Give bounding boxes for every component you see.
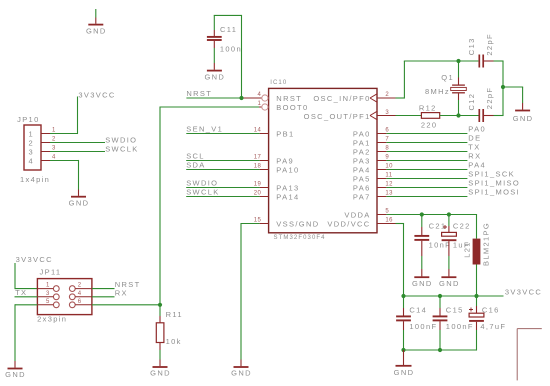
pin bubble NRST pin 4 xyxy=(262,95,268,101)
svg-text:5: 5 xyxy=(46,299,50,305)
svg-text:SCL: SCL xyxy=(186,152,205,161)
junction oscillator ground node xyxy=(501,85,505,89)
svg-text:NRST: NRST xyxy=(276,94,302,103)
pin pad 3 JP11 xyxy=(53,294,59,300)
svg-text:STM32F030F4: STM32F030F4 xyxy=(274,235,326,241)
junction 3V3 rail C16 xyxy=(474,294,478,298)
svg-text:1: 1 xyxy=(46,283,50,289)
svg-text:SEN_V1: SEN_V1 xyxy=(186,125,223,134)
junction NRST node xyxy=(239,96,243,100)
capacitor C12 22pF xyxy=(467,87,494,122)
wire OSC_OUT to R12 xyxy=(396,115,422,117)
inductor L21 BLM21PG xyxy=(463,222,491,296)
svg-text:1: 1 xyxy=(258,101,262,107)
pin pad 6 JP11 xyxy=(69,302,75,308)
svg-text:PA13: PA13 xyxy=(276,183,299,192)
ground below C22 xyxy=(439,256,460,288)
wire JP10 pin3 to SWCLK xyxy=(50,151,105,153)
svg-text:OSC_IN/PF0: OSC_IN/PF0 xyxy=(313,94,370,103)
capacitor C15 100nF xyxy=(433,296,474,331)
frame corner bottom-right xyxy=(517,329,542,381)
supply 3V3VCC (JP10) xyxy=(50,91,116,134)
svg-text:PA9: PA9 xyxy=(276,156,294,165)
pin arrow OSC_IN pin 2 xyxy=(370,94,378,103)
svg-text:22pF: 22pF xyxy=(485,33,494,56)
svg-text:4: 4 xyxy=(78,291,82,297)
svg-text:GND: GND xyxy=(513,114,534,123)
svg-text:PA0: PA0 xyxy=(353,129,371,138)
net label PA0 xyxy=(386,125,486,134)
pin pad 4 JP11 xyxy=(69,294,75,300)
svg-text:7: 7 xyxy=(385,137,389,143)
svg-text:C16: C16 xyxy=(482,305,500,314)
svg-text:100n: 100n xyxy=(220,44,242,53)
svg-text:220: 220 xyxy=(421,121,438,130)
svg-text:20: 20 xyxy=(254,191,262,197)
svg-text:PA2: PA2 xyxy=(353,147,371,156)
svg-text:10nF: 10nF xyxy=(429,240,452,249)
svg-text:14: 14 xyxy=(254,128,262,134)
svg-text:PA3: PA3 xyxy=(353,156,371,165)
svg-text:3: 3 xyxy=(46,291,50,297)
wire C13/C12 right column xyxy=(494,61,504,116)
ground below C14 xyxy=(394,350,415,377)
capacitor C16 4,7uF polarized xyxy=(469,296,506,331)
svg-text:4: 4 xyxy=(29,156,35,165)
svg-text:3V3VCC: 3V3VCC xyxy=(16,255,53,264)
wire to oscillator ground xyxy=(503,87,523,103)
net label RX (IC side) xyxy=(386,152,481,161)
svg-text:PA7: PA7 xyxy=(353,192,371,201)
wire C11 top to NRST net xyxy=(214,15,242,98)
svg-text:JP11: JP11 xyxy=(40,268,62,277)
wire VDDA rail xyxy=(386,215,477,239)
wire JP11 pin5 to ground xyxy=(15,304,37,361)
net label SCL xyxy=(186,152,259,161)
svg-text:C12: C12 xyxy=(467,93,476,111)
svg-text:SPI1_SCK: SPI1_SCK xyxy=(468,170,515,179)
svg-text:13: 13 xyxy=(385,191,393,197)
connector JP11 xyxy=(37,268,92,324)
svg-text:PB1: PB1 xyxy=(276,129,294,138)
svg-text:RX: RX xyxy=(468,152,481,161)
svg-text:GND: GND xyxy=(5,370,26,379)
net label SPI1_MISO xyxy=(386,179,520,188)
svg-text:GND: GND xyxy=(394,368,415,377)
pin pad 2 JP11 xyxy=(69,286,75,292)
wire crystal bottom node to C12 xyxy=(459,115,479,117)
net label SPI1_SCK xyxy=(386,170,515,179)
capacitor C21 10nF xyxy=(414,215,451,257)
wire NRST to IC pin 4 xyxy=(242,97,262,99)
svg-text:PA4: PA4 xyxy=(468,161,486,170)
wire VDD to 3V3 rail xyxy=(396,224,405,297)
svg-text:BOOT0: BOOT0 xyxy=(276,103,308,112)
net label SWCLK (IC side) xyxy=(186,188,259,197)
svg-text:GND: GND xyxy=(150,369,171,378)
svg-text:C13: C13 xyxy=(467,37,476,55)
svg-text:PA1: PA1 xyxy=(353,138,371,147)
svg-text:PA10: PA10 xyxy=(276,165,299,174)
svg-text:4: 4 xyxy=(52,155,56,161)
capacitor C22 1uF polarized xyxy=(442,215,471,257)
supply rail 3V3VCC right xyxy=(403,288,542,297)
svg-text:PA14: PA14 xyxy=(276,192,299,201)
net label NRST xyxy=(186,89,241,98)
svg-text:22pF: 22pF xyxy=(485,87,494,110)
svg-text:SPI1_MOSI: SPI1_MOSI xyxy=(468,188,520,197)
wire bottom decoupling rail xyxy=(403,330,477,351)
wire VSS to ground xyxy=(241,223,260,360)
svg-text:2x3pin: 2x3pin xyxy=(37,314,67,323)
svg-text:VDDA: VDDA xyxy=(344,210,370,219)
svg-text:6: 6 xyxy=(385,128,389,134)
net label SEN_V1 xyxy=(186,125,259,134)
net label RX (JP11 side) xyxy=(92,288,128,297)
svg-text:100nF: 100nF xyxy=(409,322,437,331)
svg-text:19: 19 xyxy=(254,182,262,188)
net label TX (IC side) xyxy=(386,143,480,152)
ground top-left xyxy=(86,9,107,35)
svg-text:JP10: JP10 xyxy=(17,115,39,124)
svg-text:TX: TX xyxy=(468,143,480,152)
ground below VSS xyxy=(231,360,252,378)
svg-text:OSC_OUT/PF1: OSC_OUT/PF1 xyxy=(304,112,371,121)
pin pad 1 JP11 xyxy=(53,286,59,292)
crystal Q1 8MHz xyxy=(425,61,466,116)
svg-text:10: 10 xyxy=(385,164,393,170)
pin bubble BOOT0 pin 1 xyxy=(262,104,268,110)
connector JP10 xyxy=(17,115,50,184)
supply 3V3VCC (JP11) xyxy=(15,255,53,289)
svg-text:PA5: PA5 xyxy=(353,174,371,183)
pin stubs right side IC10 xyxy=(377,98,396,224)
svg-text:C21: C21 xyxy=(429,222,447,231)
wire BOOT0 to JP11/R11 column xyxy=(160,106,262,316)
svg-text:5: 5 xyxy=(385,209,389,215)
wire JP10 pin4 to ground xyxy=(50,160,79,190)
capacitor C14 100nF xyxy=(396,296,437,331)
svg-text:1: 1 xyxy=(29,129,35,138)
junction bottom rail C15 xyxy=(438,348,442,352)
svg-text:4,7uF: 4,7uF xyxy=(480,322,506,331)
svg-text:6: 6 xyxy=(78,299,82,305)
svg-text:NRST: NRST xyxy=(186,89,212,98)
wire OSC_IN to crystal top rail xyxy=(396,61,479,99)
svg-text:17: 17 xyxy=(254,155,262,161)
svg-text:GND: GND xyxy=(86,26,107,35)
junction bottom rail C14 xyxy=(401,348,405,352)
ground right of crystal xyxy=(513,103,534,123)
svg-text:3: 3 xyxy=(29,147,35,156)
svg-text:Q1: Q1 xyxy=(441,73,454,82)
svg-text:4: 4 xyxy=(258,92,262,98)
svg-text:100nF: 100nF xyxy=(446,322,474,331)
svg-text:BLM21PG: BLM21PG xyxy=(482,222,491,266)
junction C22 top xyxy=(447,212,451,216)
svg-text:SPI1_MISO: SPI1_MISO xyxy=(468,179,520,188)
wire JP11 pin6 to R11 node xyxy=(92,304,160,306)
net label DE xyxy=(386,134,481,143)
wire JP10 pin2 to SWDIO xyxy=(50,142,105,144)
junction 3V3 rail C14 xyxy=(401,294,405,298)
svg-text:PA4: PA4 xyxy=(353,165,371,174)
capacitor C11 xyxy=(207,25,242,53)
junction C21 top xyxy=(420,212,424,216)
ground below C21 xyxy=(412,256,433,288)
net label NRST (JP11 side) xyxy=(92,280,141,289)
svg-text:GND: GND xyxy=(69,198,90,207)
svg-text:VDD/VCC: VDD/VCC xyxy=(327,219,370,228)
net label SPI1_MOSI xyxy=(386,188,520,197)
svg-text:SDA: SDA xyxy=(186,161,205,170)
pin names right side of IC10 xyxy=(304,94,371,229)
svg-text:1x4pin: 1x4pin xyxy=(20,175,50,184)
svg-text:R12: R12 xyxy=(419,104,437,113)
svg-text:15: 15 xyxy=(254,218,262,224)
pin stubs JP10 xyxy=(41,134,50,161)
svg-text:SWCLK: SWCLK xyxy=(105,144,138,153)
svg-text:L21: L21 xyxy=(463,241,472,258)
ground below C11 xyxy=(204,48,225,81)
net label SWDIO (IC side) xyxy=(186,179,259,188)
pin numbers left side of IC10 xyxy=(254,92,262,224)
svg-text:SWDIO: SWDIO xyxy=(186,179,218,188)
net label SDA xyxy=(186,161,259,170)
junction R11 node xyxy=(158,303,162,307)
pin stubs left side IC10 xyxy=(260,134,269,224)
svg-text:2: 2 xyxy=(385,92,389,98)
svg-text:TX: TX xyxy=(15,288,27,297)
junction 3V3 rail C15 xyxy=(438,294,442,298)
svg-text:10k: 10k xyxy=(166,337,182,346)
junction crystal bottom node xyxy=(456,113,460,117)
svg-text:2: 2 xyxy=(78,283,82,289)
pin stubs JP11 xyxy=(37,289,92,305)
ground below R11 xyxy=(150,360,171,378)
junction crystal top node xyxy=(456,59,460,63)
pin pad 5 JP11 xyxy=(53,302,59,308)
svg-text:PA6: PA6 xyxy=(353,183,371,192)
resistor R11 10k xyxy=(156,310,183,350)
net label TX (JP11 side) xyxy=(15,288,38,297)
ground below JP11 xyxy=(5,361,26,379)
svg-text:PA0: PA0 xyxy=(468,125,486,134)
svg-text:1: 1 xyxy=(52,128,56,134)
svg-text:11: 11 xyxy=(385,173,392,179)
svg-text:GND: GND xyxy=(439,279,460,288)
svg-text:3V3VCC: 3V3VCC xyxy=(505,288,542,297)
svg-text:3: 3 xyxy=(52,146,56,152)
svg-text:GND: GND xyxy=(204,72,225,81)
wire R11 to ground xyxy=(159,350,161,360)
svg-text:IC10: IC10 xyxy=(270,80,287,86)
capacitor C13 22pF xyxy=(467,33,494,67)
svg-text:C11: C11 xyxy=(220,25,237,34)
svg-text:DE: DE xyxy=(468,134,481,143)
resistor R12 xyxy=(419,104,440,130)
pin arrow OSC_OUT pin 3 xyxy=(370,111,378,120)
net label PA4 xyxy=(386,161,486,170)
svg-text:16: 16 xyxy=(385,218,393,224)
svg-text:C22: C22 xyxy=(453,222,471,231)
svg-text:RX: RX xyxy=(115,288,128,297)
svg-text:18: 18 xyxy=(254,164,262,170)
ground below JP10 xyxy=(69,190,90,208)
svg-text:GND: GND xyxy=(412,279,433,288)
svg-text:GND: GND xyxy=(231,369,252,378)
svg-text:R11: R11 xyxy=(166,310,183,319)
svg-text:C15: C15 xyxy=(446,305,464,314)
wire R12 to crystal bottom node xyxy=(440,115,459,117)
svg-text:8MHz: 8MHz xyxy=(425,87,450,96)
svg-text:SWCLK: SWCLK xyxy=(186,188,219,197)
svg-text:VSS/GND: VSS/GND xyxy=(276,219,319,228)
svg-text:2: 2 xyxy=(52,137,56,143)
IC IC10 microcontroller STM32F030F4 xyxy=(269,80,377,241)
svg-text:12: 12 xyxy=(385,182,393,188)
pin names left side of IC10 xyxy=(276,94,319,229)
svg-text:SWDIO: SWDIO xyxy=(105,135,137,144)
svg-text:C14: C14 xyxy=(409,305,427,314)
svg-text:8: 8 xyxy=(385,146,389,152)
svg-text:2: 2 xyxy=(29,138,35,147)
pin numbers right side of IC10 xyxy=(385,92,393,224)
svg-text:9: 9 xyxy=(385,155,389,161)
svg-text:3V3VCC: 3V3VCC xyxy=(78,91,115,100)
